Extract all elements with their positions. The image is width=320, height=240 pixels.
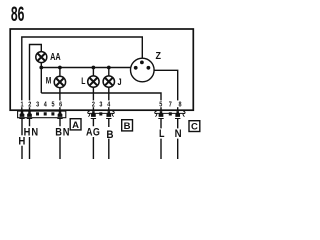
- warning lamp M: [54, 76, 65, 87]
- svg-text:Z: Z: [156, 50, 161, 62]
- wire: feed bus to gauge Z left pin: [41, 67, 131, 69]
- svg-text:5: 5: [51, 101, 54, 109]
- wire: connector B pin 4 tail: [108, 119, 110, 160]
- pin numbers connector C: [159, 101, 182, 109]
- wire: lamp AA bottom down to ground run: [40, 63, 42, 94]
- gauge Z: [131, 58, 155, 82]
- wire: connector B pin 2 tail: [92, 119, 94, 160]
- svg-text:2: 2: [28, 101, 31, 109]
- svg-text:4: 4: [107, 101, 110, 109]
- connector A unused pin 4: [44, 112, 47, 115]
- svg-text:AG: AG: [86, 127, 100, 139]
- connector B terminal pin 4: [106, 111, 111, 119]
- svg-text:3: 3: [36, 101, 39, 109]
- wire: lamp J bottom to connector B pin 4: [108, 87, 110, 109]
- connector A terminal pin 1: [19, 111, 24, 119]
- wire: connector A pin 6 tail: [59, 119, 61, 160]
- connector B shell: [88, 111, 114, 117]
- connector C label box: [189, 121, 200, 132]
- wire: connector A pin 2 tail: [29, 119, 31, 160]
- svg-text:HN: HN: [24, 127, 40, 139]
- svg-text:2: 2: [92, 101, 95, 109]
- connector A unused pin 5: [51, 112, 54, 115]
- pin numbers connector B: [92, 101, 111, 109]
- node: junction M / bus: [58, 66, 62, 70]
- wire: ground run to connector C pin 5: [41, 93, 161, 110]
- connector A terminal pin 6: [57, 111, 62, 119]
- wire: lamp L bottom to connector B pin 2: [92, 87, 94, 109]
- connector C unused pin 7: [169, 112, 172, 115]
- svg-text:1: 1: [20, 101, 23, 109]
- svg-text:N: N: [175, 129, 182, 141]
- node: junction J / bus: [107, 66, 111, 70]
- svg-text:L: L: [159, 128, 165, 140]
- wire: bus stub to lamp L: [92, 68, 94, 77]
- warning lamp L: [88, 76, 99, 87]
- wire: connector C pin 8 tail: [177, 119, 179, 160]
- connector A terminal pin 2: [27, 111, 32, 119]
- svg-text:7: 7: [169, 101, 172, 109]
- warning lamp AA: [36, 52, 47, 63]
- svg-text:J: J: [118, 76, 122, 87]
- svg-text:BN: BN: [55, 127, 70, 139]
- svg-text:L: L: [81, 76, 85, 86]
- connector C terminal pin 8: [175, 111, 180, 119]
- wire: bus stub to lamp J: [108, 68, 110, 77]
- wire: connector A pin 1 tail: [21, 119, 23, 160]
- connector C terminal pin 5: [158, 111, 163, 119]
- svg-text:4: 4: [44, 101, 47, 109]
- warning lamp J: [103, 76, 114, 87]
- svg-text:B: B: [124, 121, 131, 132]
- svg-text:AA: AA: [50, 51, 61, 63]
- svg-text:8: 8: [178, 101, 181, 109]
- node: junction L / bus: [92, 66, 96, 70]
- connector B label box: [122, 120, 133, 131]
- node: junction AA / bus: [39, 66, 43, 70]
- connector B unused pin 3: [99, 112, 102, 115]
- wire: gauge Z top rail to connector A pin 1: [22, 37, 143, 110]
- wire: lamp AA top to connector A pin 2: [30, 45, 42, 110]
- svg-text:6: 6: [59, 101, 62, 109]
- svg-text:C: C: [191, 122, 198, 133]
- wire: bus stub to lamp M: [59, 68, 61, 77]
- wire: lamp M bottom to connector A pin 6: [59, 88, 61, 110]
- connector A unused pin 3: [36, 112, 39, 115]
- connector C shell: [155, 111, 185, 117]
- svg-text:3: 3: [99, 101, 102, 109]
- svg-text:M: M: [46, 75, 52, 85]
- wire: connector C pin 5 tail: [160, 119, 162, 160]
- pin numbers connector A: [20, 101, 62, 109]
- svg-text:86: 86: [11, 2, 25, 26]
- svg-text:5: 5: [159, 101, 162, 109]
- connector A shell: [18, 111, 66, 118]
- wire: gauge Z right pin to connector C pin 8: [154, 70, 178, 110]
- svg-text:B: B: [106, 129, 114, 141]
- white gaps where pin numbers sit on wires: [20, 100, 181, 107]
- svg-text:A: A: [72, 120, 79, 131]
- connector A label box: [70, 119, 81, 130]
- instrument cluster box: [10, 29, 193, 110]
- connector B terminal pin 2: [91, 111, 96, 119]
